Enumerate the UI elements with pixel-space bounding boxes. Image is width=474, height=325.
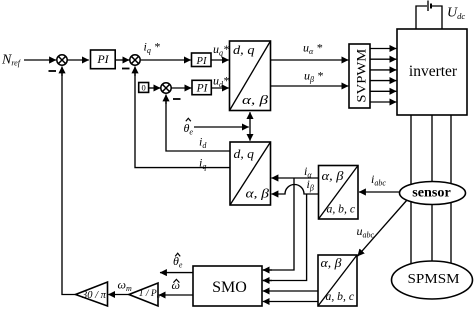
svg-text:PI: PI xyxy=(96,52,109,66)
svg-text:a, b, c: a, b, c xyxy=(327,202,356,216)
svg-text:0: 0 xyxy=(141,83,145,93)
svg-text:PI: PI xyxy=(196,83,209,95)
svg-text:Udc: Udc xyxy=(447,6,465,22)
svg-text:uβ *: uβ * xyxy=(304,69,323,85)
svg-text:SPMSM: SPMSM xyxy=(408,272,461,287)
svg-text:d, q: d, q xyxy=(233,42,255,57)
svg-text:ωm: ωm xyxy=(118,278,132,294)
svg-text:α, β: α, β xyxy=(242,92,269,107)
svg-text:α, β: α, β xyxy=(322,168,345,183)
svg-text:uq*: uq* xyxy=(213,42,229,58)
svg-text:iabc: iabc xyxy=(371,172,386,188)
svg-text:30 / π: 30 / π xyxy=(81,290,107,301)
svg-text:sensor: sensor xyxy=(412,186,451,201)
svg-text:inverter: inverter xyxy=(409,63,458,80)
svg-text:Nref: Nref xyxy=(1,53,22,68)
svg-text:ud*: ud* xyxy=(213,74,229,90)
svg-text:SVPWM: SVPWM xyxy=(354,48,369,102)
svg-text:PI: PI xyxy=(196,56,207,67)
svg-text:uabc: uabc xyxy=(357,224,375,240)
svg-text:id: id xyxy=(199,135,207,151)
svg-text:iq: iq xyxy=(199,156,206,172)
svg-text:SMO: SMO xyxy=(212,279,247,296)
svg-text:iq *: iq * xyxy=(144,40,160,56)
svg-text:α, β: α, β xyxy=(246,186,270,201)
svg-text:d, q: d, q xyxy=(234,146,255,161)
svg-text:a, b, c: a, b, c xyxy=(326,289,355,303)
svg-text:α, β: α, β xyxy=(321,255,343,270)
svg-text:uα *: uα * xyxy=(303,41,322,57)
svg-text:θe: θe xyxy=(184,121,194,137)
svg-text:θe: θe xyxy=(173,254,183,270)
